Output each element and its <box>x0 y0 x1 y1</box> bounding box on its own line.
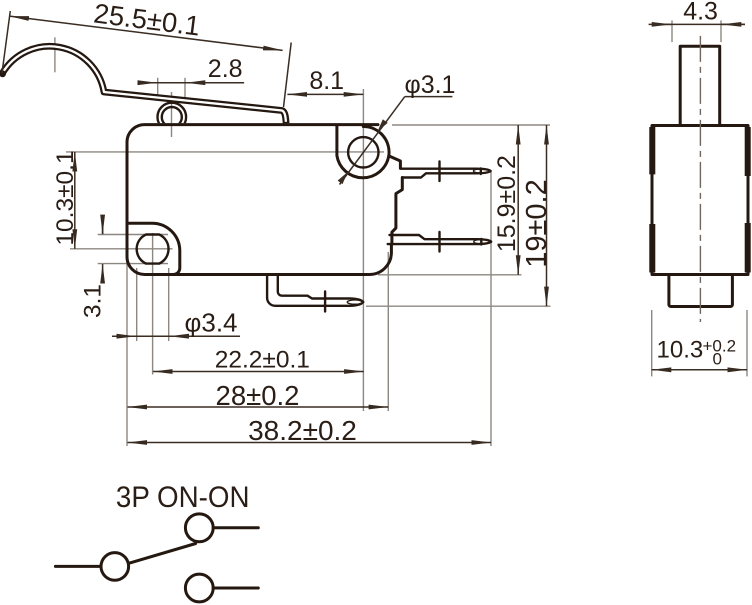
side view bottom tab <box>669 275 733 307</box>
svg-text:10.3: 10.3 <box>657 337 704 364</box>
schematic top contact circle <box>185 514 213 542</box>
ext line phi3.4 left <box>136 268 138 341</box>
svg-text:25.5±0.1: 25.5±0.1 <box>92 0 202 42</box>
boss notch around top-right hole <box>337 126 389 178</box>
ext line 2.8 right <box>184 78 186 99</box>
svg-text:38.2±0.2: 38.2±0.2 <box>248 415 357 446</box>
svg-text:φ3.1: φ3.1 <box>405 71 456 99</box>
dimension 10.3±0.1 <box>52 150 79 248</box>
ext line bottom hole V centerline (22.2) <box>152 233 154 375</box>
switch body outline <box>127 125 402 275</box>
dimension 22.2±0.1 <box>153 347 364 374</box>
dimension 8.1 <box>287 67 363 95</box>
lever arm <box>0 46 286 123</box>
svg-text:2.8: 2.8 <box>208 55 243 83</box>
ext line hole H centerline (10.3 top) <box>66 151 384 153</box>
ext line 2.8 left <box>157 78 159 99</box>
side view body <box>652 126 748 275</box>
svg-text:3P ON-ON: 3P ON-ON <box>116 481 250 514</box>
extension line group: main view gray lines <box>55 37 551 446</box>
svg-text:28±0.2: 28±0.2 <box>216 380 300 411</box>
ext line roller centerline <box>171 92 173 137</box>
ext line bottom hole H centerline (10.3 bottom) <box>70 248 173 250</box>
dimension 3.1 <box>80 217 107 318</box>
svg-text:15.9±0.2: 15.9±0.2 <box>493 155 521 252</box>
svg-text:10.3±0.1: 10.3±0.1 <box>52 150 79 245</box>
schematic common terminal lead <box>55 565 100 568</box>
side view left rib top <box>649 127 655 174</box>
svg-text:22.2±0.1: 22.2±0.1 <box>215 347 310 374</box>
ext line top hole V centerline down (8.1 right and 28) <box>362 89 364 411</box>
svg-text:φ3.4: φ3.4 <box>185 307 238 337</box>
schematic 3P ON-ON <box>55 481 258 602</box>
schematic bottom lead <box>213 587 258 590</box>
dimension 2.8 <box>138 55 244 83</box>
side view plunger <box>680 46 720 125</box>
roller plunger <box>158 103 187 132</box>
terminal 1 (top right) <box>400 162 490 182</box>
dimension 38.2±0.2 <box>128 415 492 446</box>
ext line hole top flat (3.1) <box>98 234 168 236</box>
side view right rib bottom <box>745 223 751 273</box>
schematic top lead <box>213 526 258 529</box>
ext line body right edge down (28 right) <box>387 252 389 411</box>
dimension 25.5±0.1 <box>2 0 291 107</box>
ext line lever curl tick <box>54 37 56 72</box>
schematic bottom contact circle <box>185 574 213 602</box>
svg-text:3.1: 3.1 <box>80 284 107 318</box>
schematic common contact circle <box>101 553 129 581</box>
side view left rib bottom <box>649 224 655 273</box>
svg-text:8.1: 8.1 <box>309 67 344 95</box>
side view right rib top <box>745 127 751 176</box>
dimension 15.9±0.2 <box>493 125 521 275</box>
ext line terminal tips down (38.2 right) <box>490 170 492 446</box>
top-right hole phi3.1 <box>348 137 378 167</box>
svg-text:19±0.2: 19±0.2 <box>521 179 553 268</box>
dimension 19±0.2 <box>521 125 553 306</box>
side view <box>649 0 748 376</box>
dimension phi3.1 leader <box>338 71 456 185</box>
side view centerline <box>699 36 701 322</box>
terminal 2 (middle right) <box>388 232 492 252</box>
L terminal (bottom) <box>267 275 363 312</box>
dimension 4.3 <box>671 20 673 42</box>
ext line body left edge down (28 and 38.2) <box>126 262 128 446</box>
ext line body bottom right (15.9 bottom) <box>378 274 522 276</box>
bottom-left hole phi3.4 double-D <box>137 235 169 264</box>
schematic lever wire <box>129 544 196 564</box>
dimension 28±0.2 <box>128 380 389 411</box>
ext line hole bottom flat (3.1) <box>98 263 168 265</box>
bottom-left hole boss step <box>127 223 180 274</box>
dimension phi3.4 <box>112 307 240 337</box>
svg-text:0: 0 <box>713 350 722 369</box>
ext line phi3.4 right <box>168 268 170 341</box>
ext line L-terminal bottom right (19 bottom) <box>366 305 551 307</box>
ext line body top right (15.9 and 19 top) <box>392 124 550 126</box>
svg-text:4.3: 4.3 <box>683 0 718 26</box>
dimension 10.3 +0.2/0 <box>651 310 653 376</box>
